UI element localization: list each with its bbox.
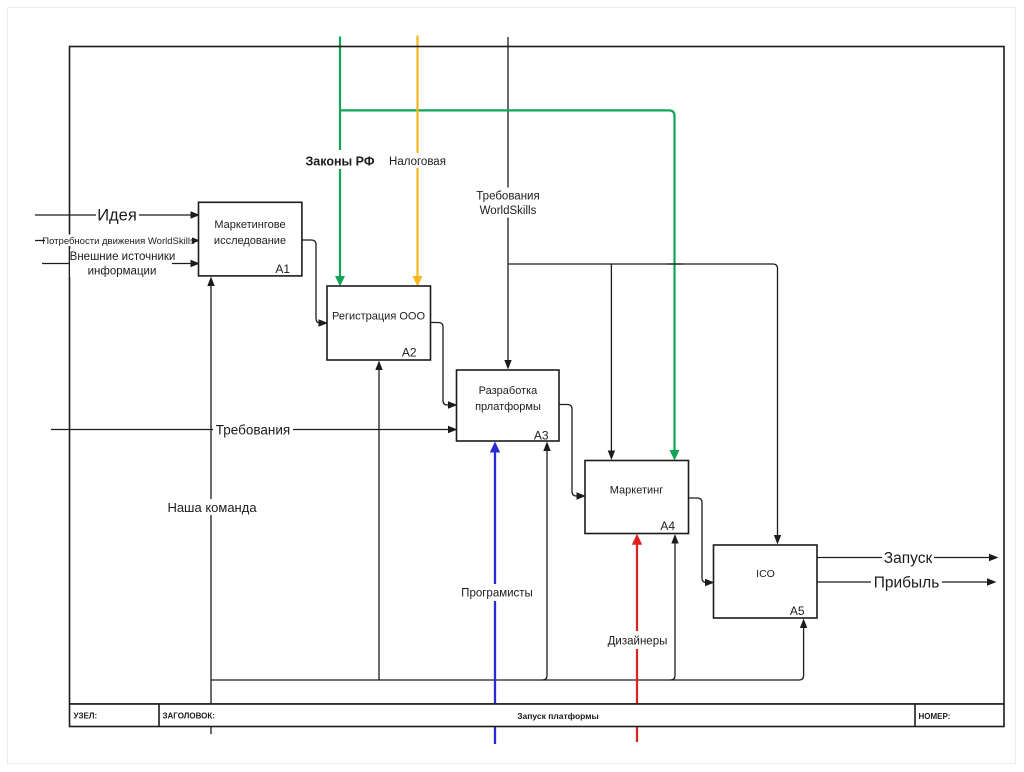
wire branch to A5 control: [508, 264, 778, 541]
wire output Прибыль: [817, 581, 993, 583]
label Налоговая: [388, 153, 447, 168]
label Программисты: [455, 584, 540, 601]
box A3 Разработка прлатформы: [457, 370, 560, 443]
arrowhead A4-A5 into A5 left: [705, 579, 715, 586]
svg-text:Запуск платформы: Запуск платформы: [517, 711, 599, 721]
wire feedback to A4 bottom: [671, 538, 676, 680]
svg-text:A4: A4: [660, 519, 675, 533]
arrowhead Налоговая into A2 top: [413, 276, 423, 287]
diagram frame: [70, 47, 1005, 705]
box A1 Маркетингове исследование: [199, 202, 302, 276]
arrowhead feedback into A2 bottom: [375, 361, 382, 371]
arrowhead A3-A4 into A4 left: [577, 492, 587, 499]
wire control Законы РФ (green): [339, 37, 341, 283]
wire feedback to A5 bottom: [799, 623, 804, 680]
svg-text:информации: информации: [88, 266, 157, 278]
svg-text:A1: A1: [275, 262, 290, 276]
box A5 ICO: [714, 545, 818, 618]
svg-text:УЗЕЛ:: УЗЕЛ:: [74, 712, 98, 721]
svg-text:НОМЕР:: НОМЕР:: [919, 712, 951, 721]
arrowhead feedback into A5 bottom: [800, 619, 807, 629]
arrowhead Идея into A1: [191, 211, 201, 218]
svg-text:A3: A3: [534, 429, 549, 443]
arrowhead control into A4 top: [608, 451, 615, 461]
arrowhead feedback into A3 bottom: [543, 442, 550, 452]
svg-text:Потребности движения WorldSkil: Потребности движения WorldSkills: [42, 236, 195, 247]
box A2 Регистрация ООО: [327, 286, 431, 360]
wire output Запуск: [817, 557, 995, 559]
label Потребности движения WorldSkills: [42, 235, 195, 248]
arrowhead control into A5 top: [774, 535, 781, 545]
svg-text:Идея: Идея: [97, 207, 137, 225]
wire A2 to A3: [430, 323, 454, 406]
label Дизайнеры: [604, 631, 671, 649]
wire mechanism Программисты (blue): [494, 447, 496, 744]
wire input Внешние источники информации: [42, 263, 196, 265]
svg-text:Требования: Требования: [216, 423, 290, 438]
wire A4 to A5: [688, 498, 710, 583]
wire input Требования: [51, 429, 453, 431]
label Внешние источники информации: [70, 249, 176, 278]
svg-text:Регистрация ООО: Регистрация ООО: [332, 311, 425, 323]
wire feedback to A2 bottom: [378, 365, 380, 681]
arrowhead control into A3 top: [504, 360, 511, 370]
wire control Налоговая (yellow): [416, 36, 418, 283]
wire input Идея: [35, 214, 196, 216]
label Запуск: [882, 548, 934, 567]
wire A1 to A2: [301, 240, 324, 323]
arrowhead A1-A2 into A2 left: [319, 319, 329, 326]
wire feedback bus: [211, 679, 799, 681]
svg-text:A5: A5: [790, 604, 805, 618]
svg-text:Требования: Требования: [476, 191, 539, 203]
arrowhead Потребности into A1: [191, 237, 201, 244]
label Законы РФ: [303, 150, 377, 169]
arrowhead Внешние into A1: [191, 260, 201, 267]
box A4 Маркетинг: [585, 461, 689, 534]
label Требования WorldSkills: [474, 188, 542, 218]
wire control Требования WorldSkills: [507, 37, 509, 365]
wire feedback to A3 bottom: [543, 446, 548, 680]
label Идея: [96, 205, 139, 225]
arrowhead output Прибыль: [987, 578, 997, 585]
wire green control to A4: [341, 110, 675, 456]
svg-text:Програмисты: Програмисты: [461, 588, 533, 600]
arrowhead Наша команда into A1 bottom: [207, 277, 214, 287]
wire input Потребности движения WorldSkills: [35, 240, 196, 242]
arrowhead Законы РФ into A2 top: [335, 276, 345, 287]
arrowhead Программисты into A3 bottom: [490, 442, 500, 453]
wire A3 to A4: [559, 405, 582, 497]
label Наша команда: [165, 499, 259, 515]
wire mechanism Наша команда: [210, 279, 212, 734]
arrowhead output Запуск: [989, 554, 999, 561]
arrowhead Требования into A3 left: [448, 426, 458, 433]
svg-text:Разработка: Разработка: [479, 385, 539, 397]
wire mechanism Дизайнеры (red): [636, 539, 638, 742]
svg-text:Наша команда: Наша команда: [167, 500, 257, 515]
svg-text:Законы РФ: Законы РФ: [305, 155, 374, 169]
svg-text:Запуск: Запуск: [884, 550, 933, 567]
svg-text:прлатформы: прлатформы: [475, 401, 541, 413]
svg-text:Прибыль: Прибыль: [874, 575, 940, 592]
svg-text:WorldSkills: WorldSkills: [480, 205, 537, 217]
arrowhead Дизайнеры into A4 bottom: [632, 534, 642, 545]
wire branch to A4 control: [610, 264, 612, 456]
svg-text:ICO: ICO: [756, 568, 775, 580]
arrowhead A2-A3 into A3 left: [448, 401, 458, 408]
svg-text:ЗАГОЛОВОК:: ЗАГОЛОВОК:: [163, 712, 215, 721]
svg-text:Маркетингове: Маркетингове: [214, 219, 285, 231]
svg-text:исследование: исследование: [214, 235, 286, 247]
svg-text:Внешние источники: Внешние источники: [70, 251, 176, 263]
arrowhead green into A4 top: [670, 450, 680, 461]
svg-text:Маркетинг: Маркетинг: [610, 485, 663, 497]
arrowhead feedback into A4 bottom: [671, 534, 678, 544]
svg-text:A2: A2: [402, 346, 417, 360]
title bar: [70, 704, 1005, 727]
label Прибыль: [871, 573, 942, 592]
svg-text:Дизайнеры: Дизайнеры: [608, 636, 668, 648]
black line patch over green at y=264 crossing: [667, 263, 683, 265]
label Требования: [213, 421, 293, 438]
svg-text:Налоговая: Налоговая: [389, 156, 446, 168]
